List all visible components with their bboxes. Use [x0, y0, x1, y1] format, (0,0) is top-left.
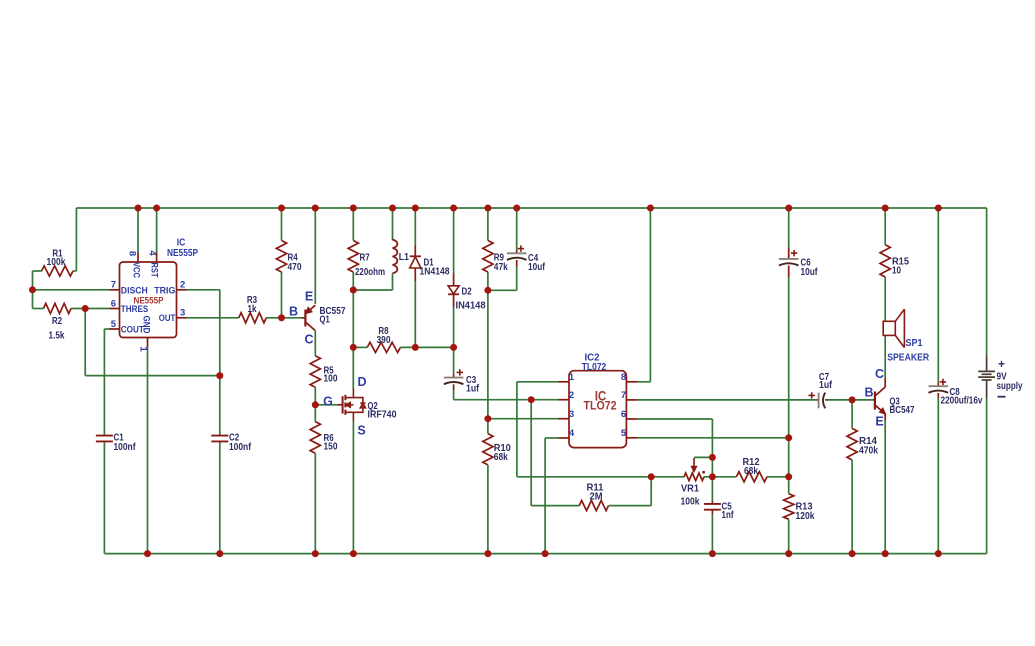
wire R2 junction down [84, 309, 86, 376]
svg-text:2: 2 [569, 390, 574, 401]
svg-text:SP1: SP1 [906, 338, 923, 349]
resistor R5 [310, 356, 320, 388]
wire R1 right to top rail [75, 208, 77, 271]
svg-text:4: 4 [569, 428, 575, 439]
svg-text:47k: 47k [494, 262, 508, 273]
svg-text:2M: 2M [590, 491, 603, 502]
wire pin4 RST drop [156, 208, 158, 253]
IC1 pin 6 stub [110, 308, 120, 310]
capacitor C5 [711, 501, 713, 504]
wire C2 bottom to rail [219, 442, 221, 554]
wire OUT to R3 and Q1 base [187, 317, 239, 319]
svg-text:B: B [864, 385, 873, 399]
resistor R11 [531, 505, 579, 507]
svg-text:100: 100 [324, 374, 338, 385]
junction dot D1 R8 node [412, 344, 419, 351]
svg-text:100nf: 100nf [229, 442, 252, 453]
wire pin4 to bottom rail [545, 437, 558, 439]
wire R2 left stub [33, 308, 44, 310]
junction dot VR1 left node [648, 473, 655, 480]
svg-text:E: E [875, 414, 883, 428]
svg-text:Q1: Q1 [320, 315, 331, 326]
capacitor C1 [96, 435, 113, 437]
transistor Q1 BC557 [282, 317, 302, 319]
svg-text:C: C [304, 333, 313, 347]
svg-text:VCC: VCC [131, 262, 142, 278]
wire ground bottom rail [104, 553, 986, 555]
svg-text:7: 7 [621, 390, 626, 401]
wire pin6 right and down [637, 418, 712, 420]
wire COUT to C1 [104, 328, 110, 330]
svg-text:IRF740: IRF740 [368, 410, 397, 421]
svg-text:10: 10 [892, 265, 901, 276]
svg-text:D: D [357, 375, 366, 389]
potentiometer VR1 100k [684, 473, 704, 481]
svg-text:470: 470 [288, 262, 302, 273]
svg-text:IN4148: IN4148 [456, 300, 486, 311]
svg-text:THRES: THRES [121, 304, 149, 315]
svg-text:TLO72: TLO72 [584, 401, 617, 413]
wire C4 bottom to R9 [488, 289, 517, 291]
svg-text:68k: 68k [494, 452, 508, 463]
svg-text:6: 6 [621, 409, 626, 420]
svg-text:R7: R7 [360, 253, 371, 264]
junction dots top rail [135, 205, 142, 212]
IC1 pin 5 stub [110, 328, 120, 330]
svg-text:100k: 100k [681, 497, 700, 508]
transistor Q1 BC557 emitter wire [314, 208, 316, 304]
wire Q2 source to bottom rail [352, 421, 354, 554]
svg-text:220ohm: 220ohm [355, 267, 385, 278]
speaker SP1 [883, 321, 895, 335]
svg-text:BC547: BC547 [890, 405, 915, 416]
wire C7 to Q3 base [828, 399, 873, 401]
resistor R3 [239, 313, 266, 323]
svg-text:VR1: VR1 [681, 484, 699, 495]
svg-text:100nf: 100nf [114, 442, 137, 453]
svg-text:5: 5 [111, 319, 117, 330]
svg-text:2: 2 [180, 280, 185, 291]
junction dot R7 L1 node [350, 287, 357, 294]
svg-text:OUT: OUT [159, 313, 176, 324]
svg-text:1uf: 1uf [466, 384, 480, 395]
wire pin3 line [488, 418, 559, 420]
wire pin1 feedback [517, 381, 559, 383]
svg-text:SPEAKER: SPEAKER [887, 353, 930, 364]
wire pin7 line [637, 399, 816, 401]
battery 9V supply [986, 208, 988, 356]
junction dot Q3 base R14 node [849, 396, 856, 403]
svg-text:2200uf/16v: 2200uf/16v [941, 396, 983, 407]
wire pin6 THRES [71, 308, 111, 310]
wire Q3 collector to speaker [884, 335, 886, 378]
junction dot wiper node [709, 454, 716, 461]
IC1 pin 3 stub [177, 317, 187, 319]
svg-text:IC: IC [177, 237, 186, 248]
resistor R7 [352, 208, 354, 241]
junction dot Q1 base node [278, 314, 285, 321]
svg-text:RST: RST [149, 263, 160, 278]
svg-text:10uf: 10uf [801, 267, 819, 278]
op-amp U2 TL072 body [569, 371, 626, 448]
IC1 pin 1 stub [147, 338, 149, 348]
svg-text:G: G [323, 395, 333, 409]
svg-text:S: S [357, 424, 365, 438]
junction dot VR1 right node [709, 473, 716, 480]
junction dot pin2 node [528, 396, 535, 403]
IC1 pin 2 stub [177, 289, 187, 291]
svg-text:R2: R2 [52, 316, 63, 327]
junction dot D2 C3 node [450, 344, 457, 351]
wire R5 to gate node [314, 387, 316, 421]
wire pin2 junction down to R11 [530, 400, 532, 506]
svg-text:L1: L1 [399, 252, 410, 263]
svg-text:68k: 68k [744, 466, 758, 477]
VR1 wiper arrow [694, 456, 712, 458]
wire R1/R2 left vertical [32, 271, 34, 309]
resistor R13 [784, 494, 794, 520]
wire C3 to IC2 pin2 [454, 399, 559, 401]
svg-text:1N4148: 1N4148 [420, 266, 450, 277]
wire gate node to Q2 [315, 404, 337, 406]
wire pin5 line [637, 437, 789, 439]
svg-text:+: + [998, 357, 1005, 371]
wire R11 right up [650, 477, 652, 506]
capacitor C2 [211, 435, 228, 437]
junction dot DISCH node [29, 286, 36, 293]
svg-text:8: 8 [127, 251, 138, 256]
wire pin7 DISCH [33, 289, 111, 291]
capacitor C8 [937, 208, 939, 383]
junction dot R12 R13 node [785, 473, 792, 480]
svg-text:1uf: 1uf [819, 380, 833, 391]
transistor Q3 BC547 [873, 399, 875, 401]
capacitor C3 [453, 347, 455, 374]
svg-text:B: B [289, 304, 298, 318]
wire Q1 collector down [314, 331, 316, 356]
junction dot TRIG node [216, 372, 223, 379]
op-amp U1 NE555P timer IC body [120, 262, 177, 338]
resistor R15 [884, 208, 886, 245]
IC1 pin 7 stub [110, 289, 120, 291]
wire feedback horizontal y477 [517, 476, 685, 478]
svg-text:COUT: COUT [121, 324, 144, 335]
IC1 pin 8 stub [137, 253, 139, 263]
svg-text:1nf: 1nf [722, 510, 735, 521]
svg-text:6: 6 [111, 298, 116, 309]
resistor R8 [353, 346, 367, 348]
svg-text:5: 5 [621, 428, 627, 439]
IC2 pin stubs left [559, 381, 570, 383]
svg-text:supply: supply [997, 381, 1023, 392]
junction dot pin5 node [785, 434, 792, 441]
svg-text:GND: GND [141, 316, 152, 334]
resistor R9 [487, 208, 489, 241]
svg-text:1.5k: 1.5k [49, 331, 65, 342]
capacitor C6 [788, 208, 790, 248]
svg-text:D2: D2 [462, 286, 473, 297]
diode D1 1N4148 [414, 208, 416, 246]
resistor R6 [310, 422, 320, 454]
diode D2 IN4148 [453, 208, 455, 274]
svg-text:E: E [305, 289, 313, 303]
junction dot THRES node [82, 305, 89, 312]
wire Q3 emitter to bottom rail [884, 420, 886, 554]
wire pin1 GND down [147, 347, 149, 553]
resistor R4 [281, 208, 283, 241]
svg-text:10uf: 10uf [528, 262, 546, 273]
inductor L1 [392, 208, 394, 240]
wire VCC top rail [76, 207, 986, 209]
wire horizontal y376 [85, 375, 220, 377]
junction dot R8 left node [350, 344, 357, 351]
svg-text:3: 3 [569, 409, 574, 420]
wire pin8 VCC drop [137, 208, 139, 253]
resistor R14 [851, 400, 853, 429]
wire C1 bottom to rail [103, 442, 105, 554]
svg-text:470k: 470k [859, 445, 878, 456]
svg-text:100k: 100k [47, 257, 66, 268]
IC2 pin stubs right [626, 381, 637, 383]
svg-text:1: 1 [569, 372, 575, 383]
capacitor C7 [816, 399, 818, 401]
IC1 pin 4 stub [156, 253, 158, 263]
svg-text:4: 4 [147, 250, 158, 256]
svg-text:390: 390 [377, 335, 391, 346]
svg-text:C: C [875, 367, 884, 381]
resistor R10 [487, 419, 489, 434]
svg-text:8: 8 [621, 372, 626, 383]
wire L1 bottom to R7 [353, 289, 392, 291]
svg-text:120k: 120k [796, 511, 815, 522]
svg-text:150: 150 [324, 441, 338, 452]
svg-text:7: 7 [111, 280, 116, 291]
svg-text:1: 1 [138, 346, 149, 352]
svg-text:TL072: TL072 [582, 362, 607, 373]
junction dot R9 C4 node [484, 287, 491, 294]
wire pin2 TRIG right then down [187, 289, 220, 291]
resistor R12 [712, 476, 736, 478]
junction dot Q2 gate node [312, 401, 319, 408]
wire R6 to bottom rail [314, 453, 316, 553]
junction dots bottom rail [144, 550, 151, 557]
resistor R2 [44, 303, 72, 313]
transistor Q2 IRF740 [338, 404, 343, 406]
svg-text:NE555P: NE555P [167, 248, 198, 259]
capacitor C4 [516, 208, 518, 251]
svg-text:3: 3 [180, 308, 185, 319]
resistor R1 [42, 266, 74, 276]
junction dot pin3 node [484, 415, 491, 422]
wire pin8 to top rail [637, 381, 650, 383]
svg-text:1k: 1k [248, 304, 257, 315]
